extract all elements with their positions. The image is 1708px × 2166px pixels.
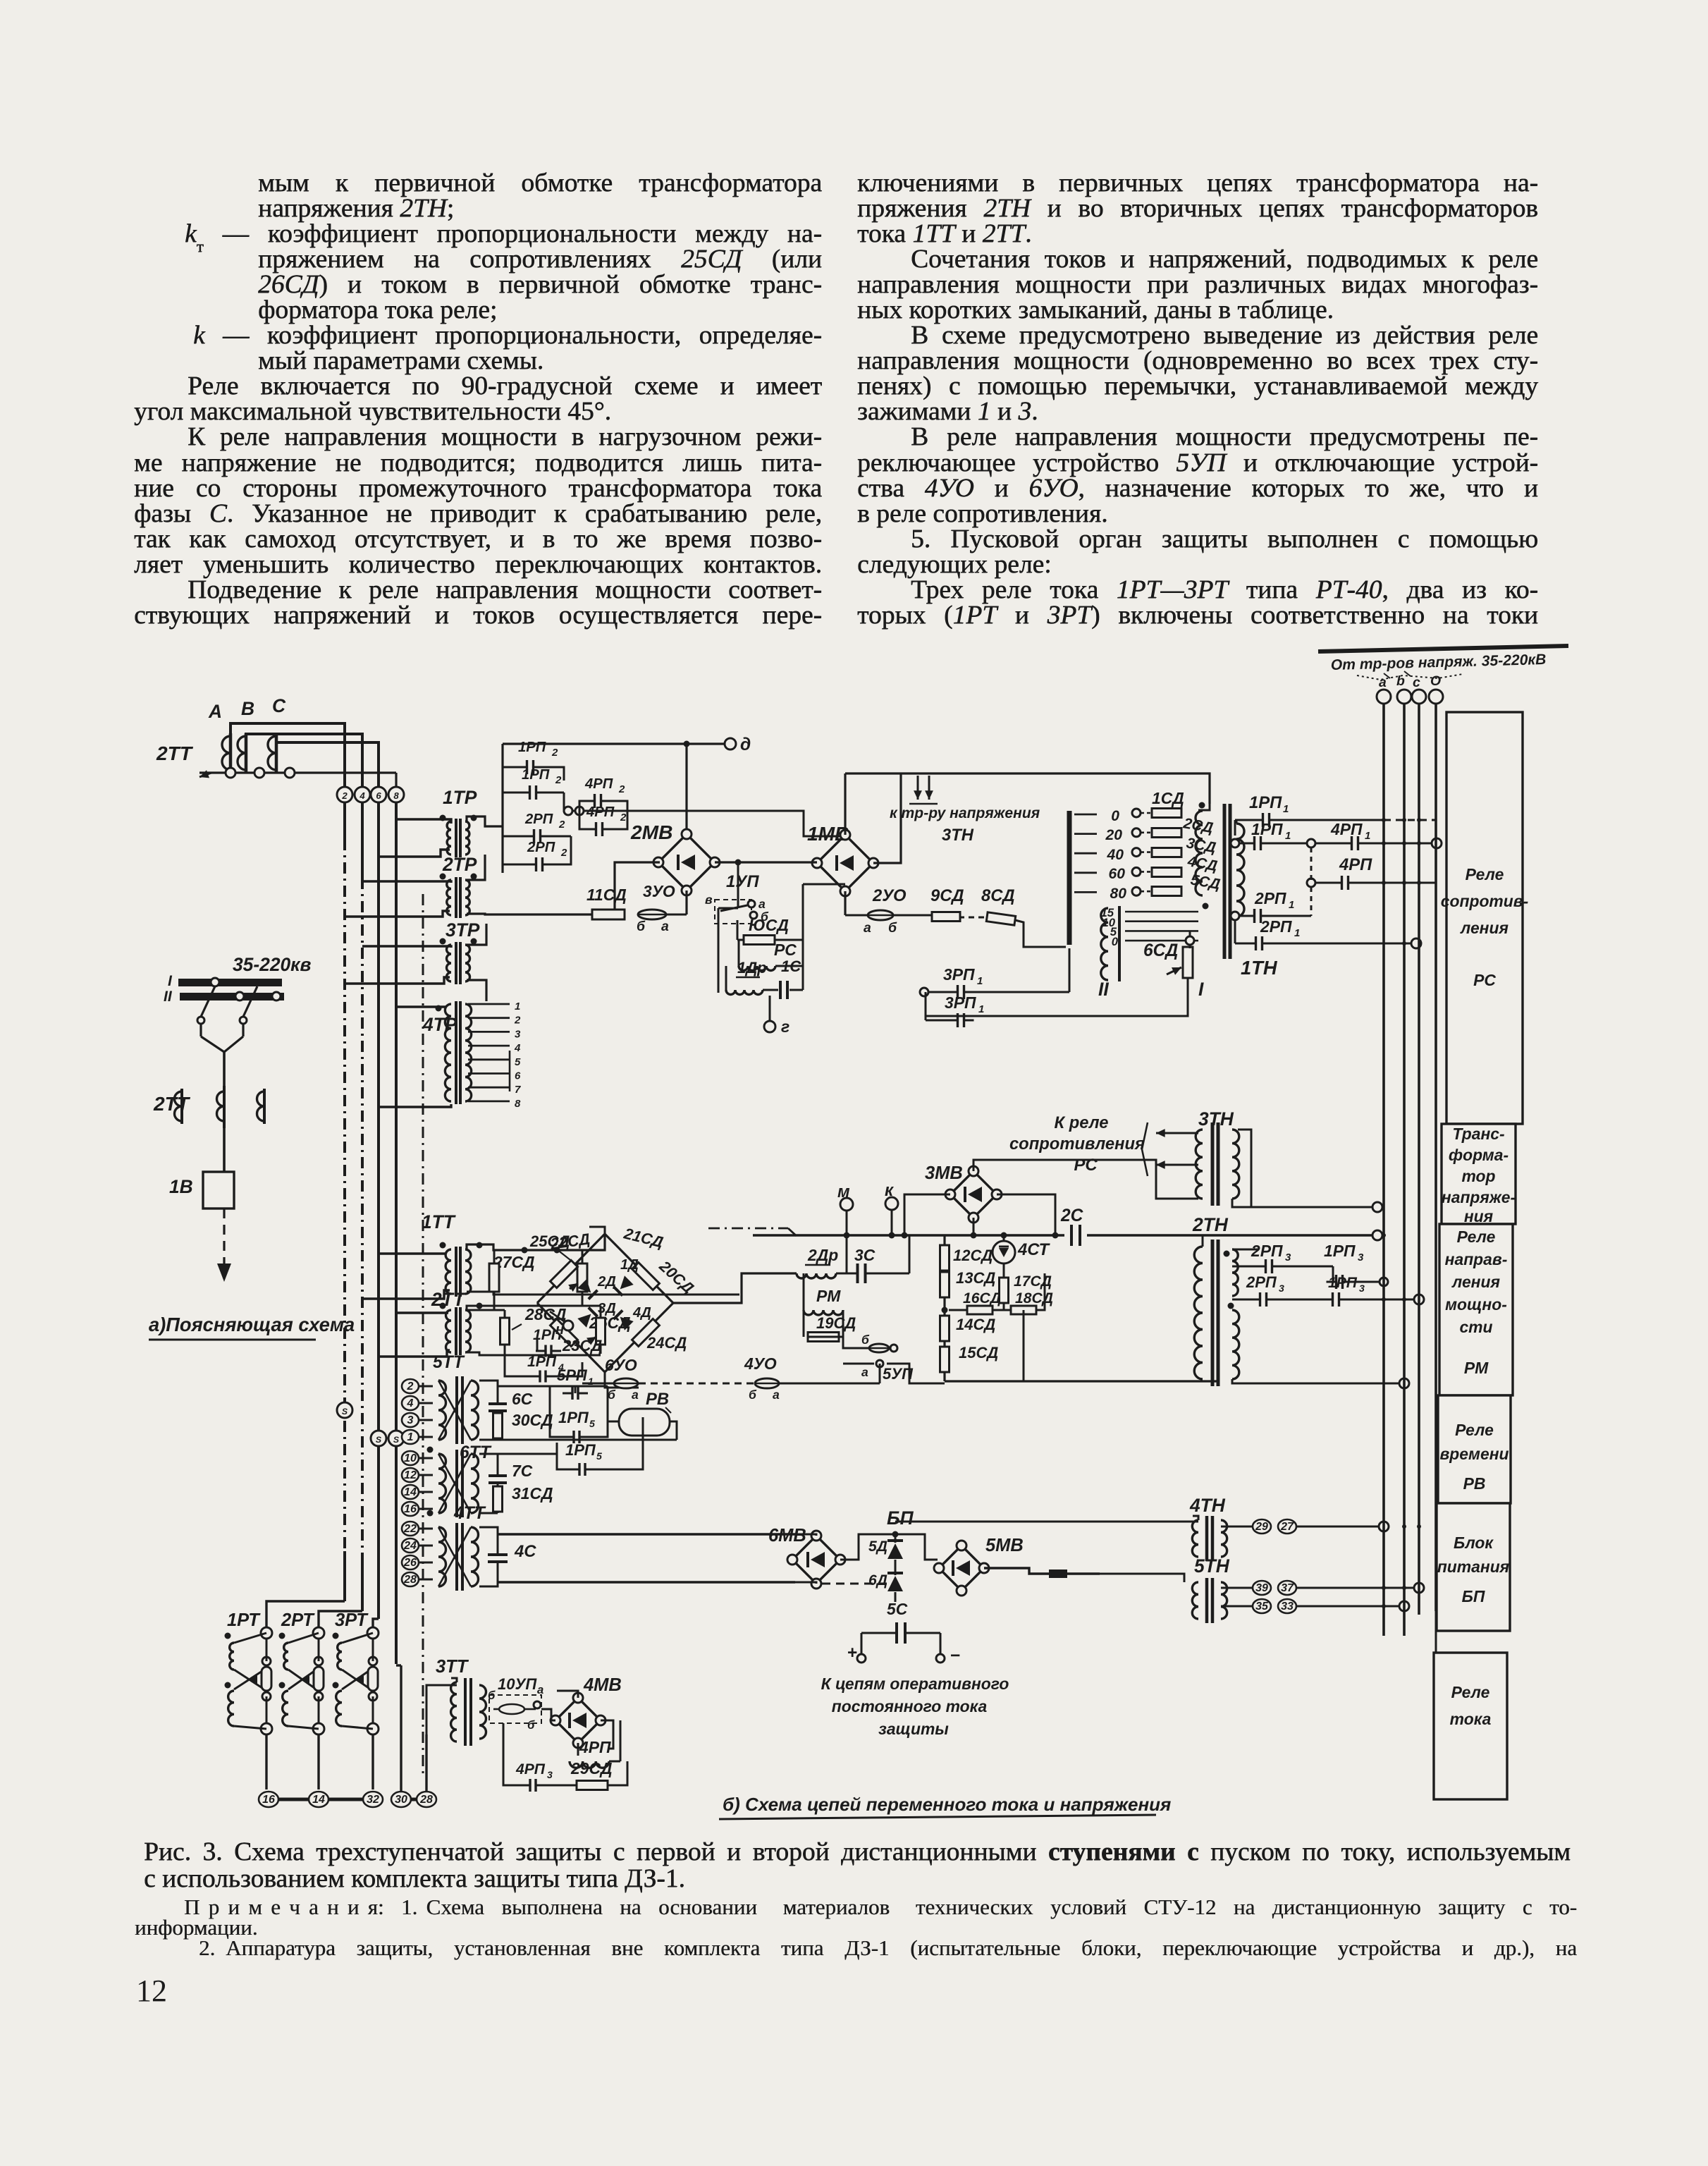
svg-text:1: 1	[977, 975, 983, 987]
wire RM row2	[843, 1360, 914, 1383]
wire terminal strip left	[258, 1798, 382, 1801]
wire RM col bottom	[945, 1310, 1024, 1381]
relay 1РТ coil	[228, 1643, 234, 1726]
wire feeder 2	[361, 802, 364, 1611]
svg-text:1Д: 1Д	[620, 1257, 639, 1273]
svg-text:1С: 1С	[781, 957, 801, 975]
wire 1РТ feed	[266, 1601, 345, 1627]
wire 3MB right	[997, 1194, 1059, 1239]
svg-text:1: 1	[515, 1001, 520, 1012]
wire 3MB bottom	[971, 1218, 977, 1239]
svg-text:4: 4	[514, 1042, 521, 1054]
wire RM link	[909, 1235, 911, 1273]
transformer 5TN	[1192, 1578, 1227, 1623]
wire 4MB conn	[541, 1691, 613, 1756]
label 3TP	[446, 919, 480, 941]
svg-text:5: 5	[596, 1450, 602, 1462]
label 2TP	[442, 854, 477, 875]
wire feeder 3	[377, 802, 380, 1619]
svg-text:4РП: 4РП	[515, 1761, 546, 1778]
busbar II	[164, 989, 284, 1005]
svg-text:1: 1	[407, 1431, 414, 1443]
wire row 39-37	[1221, 1583, 1424, 1593]
svg-text:2РП: 2РП	[1251, 1242, 1283, 1260]
node B	[241, 698, 254, 719]
label 1TT	[422, 1211, 456, 1232]
wire 4TP primary feed	[379, 1007, 451, 1107]
label 4RP1	[1330, 820, 1370, 842]
wire phase bus B	[246, 734, 362, 788]
svg-text:15СД: 15СД	[959, 1344, 998, 1362]
wire bridges link	[715, 859, 817, 866]
label bus b	[1396, 673, 1405, 689]
wire row 29-27	[1221, 1522, 1389, 1531]
node bus crossing	[1402, 881, 1406, 885]
svg-text:4СД: 4СД	[1186, 853, 1219, 874]
svg-text:24СД: 24СД	[646, 1334, 687, 1352]
transformer 3TT	[451, 1678, 486, 1746]
label 2RP3 a	[1251, 1242, 1291, 1263]
wire 3MB left	[902, 1194, 951, 1239]
label 1UP	[726, 872, 759, 891]
svg-text:3ТН: 3ТН	[942, 826, 974, 845]
label 1RP4 a	[533, 1327, 570, 1346]
terminal t22	[402, 1522, 433, 1536]
terminal S1	[337, 1402, 352, 1418]
label 3SD	[1185, 835, 1217, 856]
node dot 1TN a	[1199, 802, 1205, 809]
wire 6MB conn	[795, 1534, 890, 1584]
transformer 2TT mid	[440, 1303, 483, 1356]
label 31SD	[512, 1484, 553, 1503]
wire 4UO row	[780, 1364, 880, 1383]
svg-text:4С: 4С	[514, 1542, 536, 1561]
node 3РТ dots	[333, 1633, 339, 1689]
wire 5MB to 5TN	[1100, 1574, 1184, 1582]
node bus crossing	[1382, 1586, 1386, 1590]
terminal k	[885, 1181, 898, 1239]
notes	[135, 1897, 1577, 1958]
wire 2TN return	[1024, 1380, 1217, 1382]
label 6SD	[1143, 941, 1178, 960]
label 10SD	[749, 916, 789, 934]
svg-text:II: II	[1098, 979, 1109, 1000]
svg-text:3: 3	[407, 1414, 414, 1426]
label tap 5	[1110, 925, 1117, 938]
node dot 1TN b	[1203, 903, 1209, 910]
svg-text:5С: 5С	[887, 1600, 908, 1618]
svg-text:1СД: 1СД	[1152, 789, 1184, 807]
svg-text:10: 10	[404, 1452, 417, 1464]
right text column	[857, 171, 1538, 628]
svg-text:1ТН: 1ТН	[1241, 957, 1278, 979]
svg-text:29СД: 29СД	[570, 1759, 613, 1778]
transformer 2TN sec upper	[1232, 1249, 1238, 1296]
svg-text:С: С	[272, 695, 286, 716]
contact 1RP5 b	[557, 1417, 643, 1476]
label 4RP2 b	[586, 804, 627, 824]
label K tr-ru 3TN	[890, 805, 1040, 845]
wire BP mid	[840, 1531, 899, 1560]
svg-text:2: 2	[407, 1381, 414, 1393]
svg-text:6: 6	[376, 790, 381, 801]
wire 3TN sec	[1232, 1199, 1382, 1212]
label tap 0	[1111, 808, 1119, 824]
svg-text:О: О	[1430, 673, 1441, 689]
coil RM	[804, 1273, 843, 1326]
contact 4RP3	[503, 1723, 546, 1792]
label K rele RS	[1009, 1113, 1145, 1175]
label tap 60	[1109, 866, 1141, 882]
resistor 9SD	[932, 912, 960, 922]
svg-text:2С: 2С	[1060, 1206, 1084, 1225]
node bus crossing	[1402, 1586, 1406, 1590]
label 29SD	[570, 1759, 613, 1778]
svg-text:д: д	[740, 735, 751, 754]
label 4RP2 a	[584, 776, 625, 795]
label 9SD	[930, 886, 964, 905]
node 2РТ dots	[279, 1633, 285, 1689]
node bus crossing	[1402, 818, 1406, 822]
wire line to 1TN	[845, 773, 1210, 804]
svg-text:14СД: 14СД	[956, 1316, 995, 1333]
wire 3MB top	[973, 1160, 1198, 1199]
wire to 1B	[223, 1128, 226, 1172]
diode 1D	[613, 1257, 639, 1296]
wire 11SD row	[486, 862, 687, 914]
resistor 4SD	[1152, 868, 1181, 877]
label 4RP	[1339, 855, 1372, 874]
wire 1TP primary feed	[379, 819, 451, 857]
label 1Dr	[736, 959, 767, 977]
label 1SD	[1152, 789, 1184, 807]
svg-text:0: 0	[1112, 935, 1119, 948]
transformer 6TT	[438, 1450, 479, 1517]
wire 3РТ feed	[373, 1619, 379, 1627]
svg-text:к тр-ру напряжения: к тр-ру напряжения	[890, 805, 1040, 821]
label 4RP b	[579, 1738, 611, 1756]
label 2MB	[630, 821, 673, 843]
label 23SD	[562, 1337, 602, 1354]
label 1РТ	[227, 1610, 261, 1630]
svg-text:б: б	[608, 1388, 616, 1402]
svg-text:31СД: 31СД	[512, 1484, 553, 1503]
svg-text:А: А	[208, 701, 222, 722]
transformer CT lower B	[217, 1086, 225, 1128]
wire 3РТ bottom link	[342, 1696, 379, 1734]
svg-text:3С: 3С	[854, 1246, 875, 1264]
wire 4ST drop	[1001, 1232, 1007, 1278]
node dot 2TN a	[1224, 1251, 1234, 1309]
label 3UO	[643, 882, 675, 900]
label 21SD	[622, 1224, 665, 1251]
contact 2RP2 b	[503, 836, 571, 871]
resistor 17SD	[1000, 1278, 1009, 1310]
wire CT secondary common	[199, 770, 396, 788]
rectifier 2MB	[653, 829, 720, 895]
terminal t1	[402, 1430, 433, 1444]
wire 3TP secondary	[467, 924, 486, 1001]
wire feeder 4	[395, 802, 398, 1664]
transformer 2TN sec lower	[1232, 1310, 1239, 1379]
label 14SD	[956, 1316, 995, 1333]
wire cluster right rail	[803, 884, 845, 990]
label 20SD	[656, 1256, 697, 1297]
svg-text:а: а	[758, 897, 766, 911]
label 6TT	[427, 1443, 492, 1462]
relay 3РТ contact	[342, 1657, 378, 1701]
svg-text:5Д: 5Д	[868, 1538, 887, 1555]
svg-text:1ТТ: 1ТТ	[422, 1211, 456, 1232]
svg-text:К реле: К реле	[1054, 1113, 1108, 1132]
svg-text:26: 26	[403, 1557, 417, 1569]
terminal t14	[402, 1485, 433, 1499]
contact 1RP3 a	[1327, 1266, 1389, 1289]
wire 2РТ bottom link	[288, 1696, 324, 1734]
wire taps	[1074, 814, 1097, 892]
svg-text:в: в	[705, 893, 713, 907]
terminal 29	[1253, 1519, 1271, 1534]
svg-text:тор: тор	[1461, 1167, 1495, 1185]
rectifier bridge diamond	[537, 1234, 673, 1372]
svg-text:4: 4	[359, 790, 365, 801]
svg-text:защиты: защиты	[878, 1720, 949, 1738]
svg-text:16: 16	[262, 1794, 275, 1806]
svg-text:Реле: Реле	[1455, 1421, 1494, 1439]
svg-text:2РП: 2РП	[527, 840, 555, 855]
svg-text:сопротив-: сопротив-	[1441, 892, 1528, 910]
svg-text:ЮСД: ЮСД	[749, 916, 789, 934]
svg-text:РС: РС	[1473, 971, 1496, 989]
box blok pitaniya	[1437, 1503, 1510, 1631]
terminal 4	[355, 787, 370, 802]
label 3MB	[925, 1163, 963, 1183]
label 5TN	[1194, 1555, 1230, 1577]
svg-text:8: 8	[515, 1098, 521, 1110]
node bus crossing	[1417, 1524, 1421, 1529]
capacitor 2C	[1060, 1206, 1084, 1246]
winding II	[1101, 906, 1119, 981]
terminal g	[764, 1017, 790, 1036]
wire 2TP secondary up	[467, 855, 485, 880]
svg-text:60: 60	[1109, 866, 1126, 882]
contact 4RP2 a	[579, 794, 627, 811]
contact 2RP3 a	[1232, 1259, 1333, 1273]
label 5TT	[433, 1353, 465, 1372]
wire 6UO row	[582, 1383, 757, 1385]
svg-text:4: 4	[407, 1397, 414, 1409]
label 1RP2 a	[518, 740, 558, 759]
node bus crossing	[1402, 1297, 1406, 1302]
svg-text:3УО: 3УО	[643, 882, 675, 900]
label 30SD	[512, 1411, 553, 1429]
node 1РТ dots	[225, 1633, 231, 1689]
svg-text:3МВ: 3МВ	[925, 1163, 963, 1183]
wire 2TN sec2	[1232, 1378, 1409, 1388]
label BP	[887, 1507, 914, 1529]
core 1TN	[1224, 804, 1230, 959]
node bus crossing	[1417, 881, 1421, 885]
svg-text:18СД: 18СД	[1015, 1290, 1053, 1307]
label 1RP5 a	[558, 1409, 595, 1429]
svg-text:37: 37	[1281, 1582, 1294, 1594]
svg-text:3: 3	[1359, 1283, 1365, 1294]
resistor 2SD	[1152, 828, 1181, 838]
label 4RP3	[515, 1761, 553, 1780]
svg-text:3Д: 3Д	[598, 1301, 616, 1316]
svg-text:1РП: 1РП	[518, 740, 546, 755]
winding 1TN secondary	[1196, 811, 1203, 895]
contact 3RP1 b	[926, 992, 974, 1027]
svg-text:РВ: РВ	[646, 1390, 669, 1409]
svg-text:РВ: РВ	[1463, 1474, 1486, 1493]
diode 3D	[577, 1301, 616, 1328]
resistor 11SD	[592, 910, 625, 919]
label 1TP	[443, 787, 477, 808]
wire 4TP taps	[468, 1001, 521, 1110]
label 4MB	[583, 1675, 622, 1695]
svg-text:к: к	[885, 1181, 895, 1200]
svg-text:1РП: 1РП	[1328, 1275, 1358, 1291]
label 1RP2 b	[522, 767, 562, 786]
label 16SD	[963, 1290, 1001, 1307]
contact 1UP	[705, 893, 769, 924]
label 13SD	[956, 1269, 995, 1287]
svg-text:4РП: 4РП	[586, 804, 615, 820]
contact 3RP1 a	[920, 948, 1069, 999]
contact 5RP1	[563, 1386, 588, 1400]
wire 5TT out	[479, 1381, 498, 1440]
svg-text:3: 3	[515, 1028, 521, 1040]
svg-text:1: 1	[978, 1003, 984, 1015]
svg-text:2ТТ: 2ТТ	[153, 1092, 191, 1115]
label 1RP5 b	[565, 1441, 602, 1462]
terminal 27	[1278, 1519, 1296, 1534]
capacitor 5C	[861, 1600, 940, 1644]
contact 10UP	[489, 1695, 541, 1732]
diode 6D	[868, 1560, 903, 1602]
contact 1RP4 b	[505, 1359, 582, 1383]
potentiometer 6SD	[1167, 947, 1193, 978]
label 3RP1 a	[943, 965, 983, 987]
terminal t28	[402, 1572, 433, 1586]
label 5MB	[985, 1536, 1024, 1555]
svg-text:тока: тока	[1450, 1710, 1492, 1728]
svg-text:2РП: 2РП	[1254, 889, 1286, 907]
svg-text:14: 14	[404, 1486, 417, 1498]
svg-text:S: S	[376, 1435, 382, 1445]
terminal bus c	[1412, 690, 1426, 704]
svg-text:1РП: 1РП	[1249, 793, 1282, 812]
winding 1TN right	[1236, 820, 1244, 917]
fuse 6UO	[608, 1378, 639, 1402]
label I	[1198, 979, 1204, 1000]
wire 5MB out	[984, 1568, 1100, 1578]
resistor 22SD body	[551, 1261, 578, 1288]
svg-text:13СД: 13СД	[956, 1269, 995, 1287]
svg-text:напряже-: напряже-	[1442, 1188, 1516, 1206]
svg-text:1ТР: 1ТР	[443, 787, 477, 808]
svg-text:35: 35	[1255, 1601, 1269, 1613]
svg-text:б: б	[888, 920, 897, 936]
terminal 28b	[417, 1792, 436, 1807]
wire 4TT row top	[498, 1533, 895, 1535]
potentiometer 26SD	[586, 1306, 605, 1354]
label 35-220kv	[233, 954, 312, 975]
label tap 10	[1102, 916, 1115, 929]
wire arrows 3TN	[909, 776, 938, 804]
svg-text:30СД: 30СД	[512, 1411, 553, 1429]
label bus a	[1379, 675, 1387, 690]
transformer CT lower A	[175, 1089, 183, 1124]
wire 4TT row bottom	[498, 1581, 795, 1583]
wire 6SD bottom	[926, 979, 1188, 1016]
label 1RP4 b	[527, 1354, 564, 1373]
svg-text:направ-: направ-	[1445, 1250, 1508, 1268]
svg-text:м: м	[837, 1182, 850, 1201]
label 26SD	[589, 1314, 631, 1332]
svg-text:4РП: 4РП	[584, 776, 613, 792]
capacitor 3C	[836, 1263, 909, 1283]
box rele napravleniya	[1439, 1224, 1513, 1395]
transformer 1TT	[440, 1242, 483, 1297]
wire 3РТ top link	[342, 1627, 379, 1661]
svg-text:1: 1	[588, 1376, 594, 1387]
svg-text:II: II	[164, 989, 173, 1005]
winding 1TN left bar	[1067, 811, 1072, 945]
svg-text:б: б	[527, 1718, 535, 1732]
wire disconnector right	[240, 986, 257, 1036]
svg-text:40: 40	[1107, 847, 1124, 863]
resistor 3SD	[1152, 848, 1181, 857]
svg-text:БП: БП	[1462, 1587, 1485, 1605]
svg-text:сопротивления: сопротивления	[1009, 1134, 1145, 1154]
node circle 6SD	[1186, 936, 1194, 945]
terminal t4	[402, 1396, 433, 1410]
label 25SD	[529, 1232, 577, 1265]
label tap 15	[1100, 906, 1114, 919]
resistor 1SD	[1152, 809, 1181, 818]
core 2TN	[1212, 1240, 1218, 1386]
terminal t3	[402, 1413, 433, 1427]
svg-text:80: 80	[1110, 886, 1127, 902]
wire bus 1	[1382, 704, 1385, 1636]
contact 1RP5 a	[550, 1386, 608, 1443]
svg-text:сти: сти	[1459, 1318, 1492, 1336]
wire 1РТ bottom link	[234, 1696, 272, 1734]
resistor 31SD	[493, 1454, 558, 1513]
diode 2D	[577, 1274, 616, 1299]
svg-text:1Др: 1Др	[737, 959, 767, 977]
rectifier 4MB	[551, 1693, 606, 1748]
wire 1TP secondary	[467, 816, 503, 826]
svg-text:2УО: 2УО	[872, 886, 907, 905]
svg-text:4ТН: 4ТН	[1189, 1495, 1226, 1516]
svg-text:2ТТ: 2ТТ	[431, 1289, 466, 1310]
wire I winding	[1189, 931, 1191, 948]
label 11SD	[586, 886, 627, 904]
svg-text:г: г	[781, 1017, 790, 1036]
label 24SD	[646, 1334, 687, 1352]
label 1RP3 a	[1324, 1242, 1364, 1263]
box rele soprotivleniya	[1441, 712, 1528, 1124]
label 15SD	[959, 1344, 998, 1362]
label 2TT lower	[153, 1092, 191, 1115]
label 12SD	[953, 1247, 993, 1264]
svg-text:2МВ: 2МВ	[630, 821, 673, 843]
wire bridge right	[673, 1273, 797, 1303]
box rele toka	[1434, 1653, 1507, 1799]
